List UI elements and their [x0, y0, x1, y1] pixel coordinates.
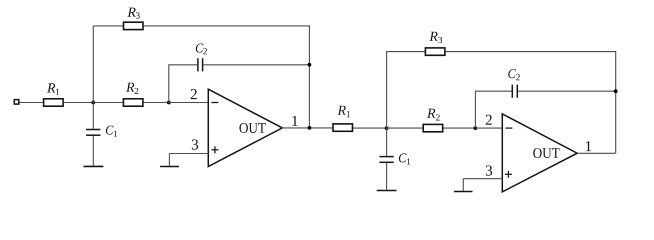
label OUT (stage 2) [533, 148, 559, 158]
label C2 (stage 2) [508, 69, 520, 80]
wire output of U1 to stage 2 [282, 127, 333, 129]
wire R1 to node A [64, 102, 93, 104]
resistor R2 (stage 1) [123, 99, 142, 106]
wire R2 to node D (stage 2) [443, 127, 475, 129]
wire node D to op-amp pin 2 (stage 2) [475, 127, 502, 129]
label C1 (stage 2) [399, 153, 410, 164]
resistor R1 (stage 2) [333, 124, 353, 131]
capacitor C2 (stage 1) [198, 58, 203, 71]
wire R3 right segment and right vertical down to output (stage 2) [446, 52, 616, 154]
resistor R3 (stage 2) [425, 48, 445, 55]
node B junction dot [167, 101, 171, 105]
pin label 3 (stage 1) [192, 139, 198, 149]
label R1 (stage 2) [338, 106, 350, 117]
label C2 [196, 44, 207, 55]
wire node C to R2 (stage 2) [387, 127, 423, 129]
wire node B up to C2 (stage 1) [169, 65, 197, 103]
node C junction dot [385, 126, 389, 130]
ground at pin 3 (stage 2) [454, 191, 473, 193]
resistor R2 (stage 2) [423, 124, 443, 131]
op-amp U1 minus sign [211, 102, 218, 104]
wire node D up to C2 (stage 2) [475, 91, 511, 128]
wire node B to op-amp pin 2 [169, 102, 209, 104]
op-amp U2 plus sign [505, 171, 512, 178]
wire C2 to right vertical [203, 64, 309, 66]
wire C1 to ground (stage 2) [386, 163, 388, 190]
label R2 [126, 83, 138, 94]
node C2-right junction dot [308, 63, 312, 67]
wire C2 to right vertical (stage 2) [518, 90, 616, 92]
label OUT (stage 1) [239, 123, 265, 133]
pin label 3 (stage 2) [486, 165, 492, 175]
pin label 1 (stage 2) [586, 141, 591, 151]
resistor R1 (stage 1) [44, 99, 64, 106]
wire R3 right segment and right vertical down to output node (stage 1) [144, 26, 310, 128]
capacitor C1 (stage 2) [379, 157, 393, 163]
op-amp U1 plus sign [211, 146, 218, 153]
op-amp U2 minus sign [505, 127, 512, 129]
ground below C1 (stage 2) [377, 190, 397, 192]
resistor R3 (stage 1) [124, 22, 144, 29]
node D junction dot [474, 126, 478, 130]
node A junction dot [91, 101, 95, 105]
wire op-amp pin 3 (stage 1) [169, 153, 208, 155]
capacitor C2 (stage 2) [512, 85, 517, 98]
wire input to R1 [20, 102, 44, 104]
wire R1 to node C (stage 2) [353, 127, 386, 129]
label R3 [127, 8, 139, 19]
wire R3 left segment and left vertical down to C1 (stage 2) [387, 52, 425, 156]
op-amp U2 [502, 114, 577, 192]
input terminal [14, 100, 18, 105]
wire pin 3 ground stub (stage 1) [168, 154, 170, 166]
node output U1 junction dot [308, 126, 312, 130]
ground at pin 3 (stage 1) [160, 166, 179, 168]
wire pin 3 ground stub (stage 2) [462, 179, 464, 191]
pin label 2 (stage 1) [191, 89, 197, 99]
ground below C1 [84, 165, 104, 167]
wire C1 to ground [92, 136, 94, 166]
op-amp U1 [208, 89, 282, 166]
label C1 [106, 126, 117, 137]
pin label 2 (stage 2) [486, 115, 492, 125]
wire R2 to node B [144, 102, 169, 104]
wire node A to R2 [93, 102, 122, 104]
label R3 (stage 2) [429, 32, 442, 43]
node C2-right junction dot (stage 2) [614, 89, 618, 93]
capacitor C1 (stage 1) [86, 130, 100, 136]
pin label 1 (stage 1) [292, 116, 297, 126]
wire output of U2 [577, 152, 616, 154]
wire op-amp pin 3 (stage 2) [463, 178, 502, 180]
label R2 (stage 2) [427, 109, 440, 121]
label R1 [47, 83, 59, 94]
wire R3 left segment and left vertical down to C1 (stage 1) [93, 26, 123, 129]
